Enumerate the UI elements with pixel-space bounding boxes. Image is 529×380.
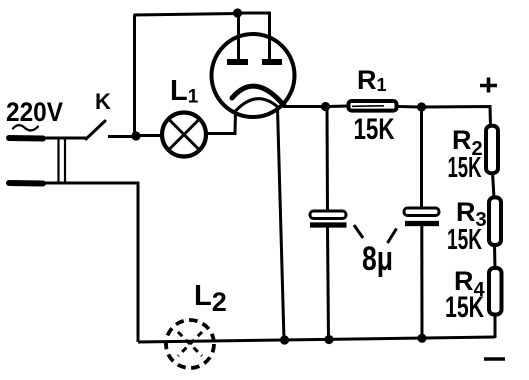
capacitor C2: [404, 208, 439, 224]
B+ rail wire right: [424, 107, 491, 127]
wire node A to lamp L1: [140, 134, 162, 137]
node B1 dot: [321, 102, 330, 111]
svg-text:15K: 15K: [447, 224, 482, 256]
bottom mains prong: [9, 180, 43, 187]
wire R3 to R4: [493, 244, 497, 269]
cathode output wire: [284, 105, 323, 108]
capacitor C2 top wire: [420, 109, 423, 209]
svg-text:R1: R1: [357, 65, 387, 95]
wire top horizontal to anode junction: [134, 14, 239, 16]
resistor R3: [489, 197, 501, 245]
label R3: [456, 197, 487, 231]
anode junction dot: [233, 8, 242, 17]
label 8u pointer left: [354, 225, 363, 238]
svg-text:15K: 15K: [448, 152, 482, 184]
filament: [236, 99, 280, 111]
svg-text:220V: 220V: [6, 97, 63, 127]
wire junction to right anode corner: [238, 13, 270, 59]
label K: [95, 89, 111, 114]
filament left leg wire: [206, 110, 236, 134]
resistor R1: [349, 101, 397, 111]
label plus: [480, 78, 497, 93]
node G2 dot: [324, 335, 333, 344]
resistor R2: [486, 126, 498, 174]
svg-text:8μ: 8μ: [362, 240, 393, 278]
wire R2 to R3: [493, 172, 495, 198]
capacitor C2 bottom wire: [420, 226, 423, 339]
node G1 dot: [280, 335, 289, 344]
svg-text:K: K: [95, 89, 111, 114]
return wire left vertical: [137, 182, 140, 342]
label 8u pointer right: [388, 229, 397, 244]
label R3 value 15K: [447, 224, 482, 256]
wire R4 to ground rail: [494, 313, 497, 338]
svg-text:15K: 15K: [354, 113, 395, 146]
node G3 dot: [417, 334, 426, 343]
filament right leg wire: [278, 108, 285, 340]
left anode lead: [237, 13, 240, 59]
junction node A: [131, 131, 140, 140]
label L1: [170, 75, 199, 108]
switch contact wire: [108, 135, 133, 138]
wire R1 to node B2: [399, 105, 420, 109]
AC tilde: [13, 125, 38, 130]
lamp L1: [162, 113, 206, 157]
left anode plate: [227, 59, 248, 65]
label R4: [454, 266, 486, 301]
wire node B1 to R1: [328, 105, 348, 109]
switch K blade: [86, 121, 105, 139]
cord line 1: [57, 139, 59, 183]
resistor R4: [489, 268, 502, 315]
right anode plate: [262, 59, 282, 65]
label L2: [194, 280, 227, 317]
tube envelope U1: [212, 34, 295, 117]
label 8u: [362, 240, 393, 278]
svg-text:L2: L2: [194, 280, 227, 317]
cord line 2: [64, 139, 66, 183]
label R4 value 15K: [445, 291, 484, 324]
capacitor C1: [310, 211, 347, 225]
top mains wire: [43, 137, 87, 140]
ground rail: [138, 337, 495, 342]
label R1 value 15K: [354, 113, 395, 146]
cathode: [232, 86, 284, 105]
label R1: [357, 65, 387, 95]
node B2 dot: [417, 102, 426, 111]
bottom mains wire: [43, 182, 139, 185]
label R2: [452, 125, 483, 160]
capacitor C1 bottom wire: [328, 227, 329, 339]
wire node A up: [133, 15, 136, 134]
svg-text:L1: L1: [170, 75, 199, 108]
label minus: [484, 357, 505, 361]
label R2 value 15K: [448, 152, 482, 184]
capacitor C1 top wire: [326, 108, 330, 212]
svg-text:15K: 15K: [445, 291, 484, 324]
top mains prong: [9, 135, 43, 142]
label 220V: [6, 97, 63, 127]
lamp L2: [166, 320, 214, 368]
